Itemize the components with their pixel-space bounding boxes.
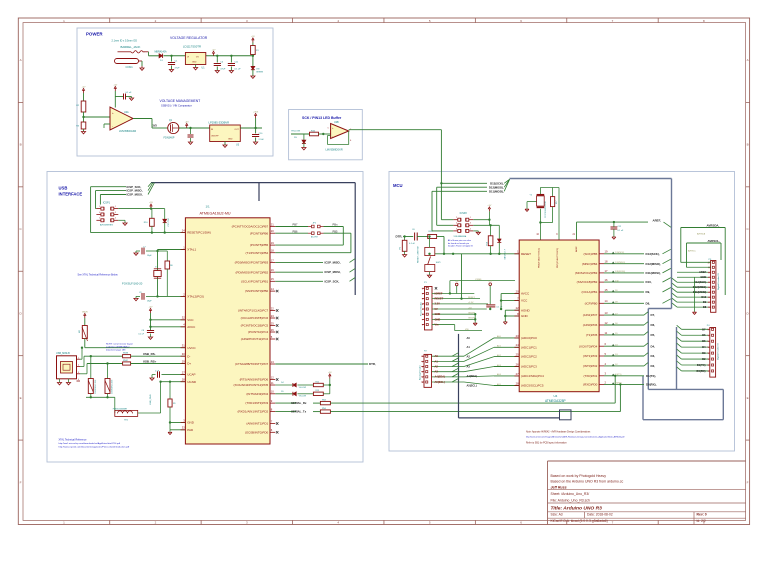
svg-text:A2: A2 bbox=[435, 364, 439, 368]
svg-text:E: E bbox=[747, 396, 749, 400]
svg-text:E: E bbox=[20, 396, 22, 400]
svg-text:1: 1 bbox=[709, 307, 710, 309]
svg-text:R18: R18 bbox=[487, 242, 489, 245]
svg-text:3: 3 bbox=[708, 359, 709, 361]
svg-text:ATMEGA328P: ATMEGA328P bbox=[545, 399, 566, 403]
svg-text:14: 14 bbox=[271, 287, 274, 291]
svg-text:(MOSI/OC2)PB3: (MOSI/OC2)PB3 bbox=[575, 271, 598, 275]
svg-text:UVCC: UVCC bbox=[187, 346, 196, 350]
svg-text:datasheet page 188: datasheet page 188 bbox=[106, 348, 126, 351]
svg-text:AVRSDA: AVRSDA bbox=[697, 233, 706, 236]
svg-text:+5V,: +5V, bbox=[468, 307, 472, 309]
svg-text:3.3V: 3.3V bbox=[435, 302, 441, 306]
svg-text:RESET_SWITCH: RESET_SWITCH bbox=[417, 245, 419, 263]
svg-text:1: 1 bbox=[78, 357, 79, 359]
svg-text:20: 20 bbox=[271, 229, 274, 233]
svg-text:19: 19 bbox=[605, 250, 608, 254]
svg-text:+5V: +5V bbox=[328, 372, 332, 374]
svg-text:http://ww1.microchip.com/downl: http://ww1.microchip.com/downloads/en/Ap… bbox=[59, 442, 121, 445]
svg-text:2: 2 bbox=[78, 365, 79, 367]
svg-text:(PCINT10)PC4: (PCINT10)PC4 bbox=[248, 330, 269, 334]
svg-text:2: 2 bbox=[708, 365, 709, 367]
svg-text:5: 5 bbox=[422, 309, 423, 311]
svg-text:D1(TX): D1(TX) bbox=[615, 374, 622, 376]
svg-text:D12(MISO),: D12(MISO), bbox=[646, 262, 662, 266]
svg-text:5: 5 bbox=[115, 218, 116, 220]
svg-text:D3,: D3, bbox=[651, 354, 656, 358]
svg-text:+5V: +5V bbox=[149, 307, 153, 309]
svg-text:31: 31 bbox=[182, 344, 185, 348]
svg-text:-: - bbox=[112, 124, 113, 128]
svg-text:YELLOW: YELLOW bbox=[299, 396, 307, 398]
svg-text:+5V: +5V bbox=[82, 87, 86, 89]
svg-text:D12(MISO): D12(MISO) bbox=[615, 262, 625, 264]
svg-text:PB7(XTAL2/TOSC2): PB7(XTAL2/TOSC2) bbox=[556, 248, 559, 268]
svg-text:5: 5 bbox=[709, 287, 710, 289]
svg-text:LP2985-33DBVR: LP2985-33DBVR bbox=[209, 120, 230, 124]
svg-text:A3: A3 bbox=[467, 364, 471, 368]
svg-text:(PCINT6)PB6: (PCINT6)PB6 bbox=[250, 231, 269, 235]
svg-text:R9: R9 bbox=[173, 403, 175, 405]
svg-text:D11(MOSI),: D11(MOSI), bbox=[646, 271, 661, 275]
svg-text:Size: A3: Size: A3 bbox=[551, 513, 563, 517]
svg-text:3: 3 bbox=[470, 223, 471, 225]
svg-text:be found on female pin: be found on female pin bbox=[448, 243, 470, 245]
svg-text:D2: D2 bbox=[702, 357, 706, 361]
svg-text:(INT4/ICP1/CLK0)PC7: (INT4/ICP1/CLK0)PC7 bbox=[238, 309, 269, 313]
svg-text:Vin: Vin bbox=[435, 322, 439, 326]
svg-text:http://ww1.atmel.com/images/At: http://ww1.atmel.com/images/Atmel-2521-A… bbox=[526, 436, 625, 439]
svg-text:(AIN2/PCINT11)PC2: (AIN2/PCINT11)PC2 bbox=[241, 337, 269, 341]
svg-text:PAD: PAD bbox=[187, 428, 194, 432]
svg-text:32: 32 bbox=[182, 316, 185, 320]
svg-text:7: 7 bbox=[422, 319, 423, 321]
svg-text:6: 6 bbox=[456, 228, 457, 230]
svg-text:D9: D9 bbox=[703, 300, 707, 304]
svg-text:A5(SCL): A5(SCL) bbox=[467, 383, 477, 387]
svg-text:XTAL Technical Reference: XTAL Technical Reference bbox=[59, 438, 88, 441]
svg-text:4: 4 bbox=[708, 353, 709, 355]
svg-text:AVRSCL,: AVRSCL, bbox=[708, 239, 721, 243]
svg-text:IOREF: IOREF bbox=[435, 291, 443, 295]
svg-text:(PD0/MISO/PCINT3)PB3: (PD0/MISO/PCINT3)PB3 bbox=[235, 261, 269, 265]
svg-text:(SCK)PB5: (SCK)PB5 bbox=[583, 252, 597, 256]
svg-text:VO: VO bbox=[196, 57, 199, 59]
svg-text:SSBV01 / VIN Comparator: SSBV01 / VIN Comparator bbox=[161, 103, 192, 107]
svg-text:13: 13 bbox=[605, 311, 608, 315]
svg-text:47uF: 47uF bbox=[175, 68, 181, 70]
svg-text:F: F bbox=[747, 480, 749, 484]
svg-text:D13(SCK): D13(SCK) bbox=[694, 280, 706, 284]
svg-text:8: 8 bbox=[422, 325, 423, 327]
svg-text:ICSP_MOSI,: ICSP_MOSI, bbox=[325, 270, 341, 274]
svg-text:(ICP)PB0: (ICP)PB0 bbox=[585, 301, 598, 305]
svg-text:SCK / PIN13 LED Buffer: SCK / PIN13 LED Buffer bbox=[302, 116, 342, 120]
svg-text:26: 26 bbox=[516, 362, 519, 366]
svg-text:headers Power & Digital IO: headers Power & Digital IO bbox=[448, 245, 473, 248]
svg-text:D4: D4 bbox=[281, 382, 283, 384]
svg-text:+5V: +5V bbox=[149, 202, 153, 204]
svg-text:GND: GND bbox=[228, 139, 233, 141]
svg-text:LMV358IDGKR: LMV358IDGKR bbox=[119, 130, 136, 133]
svg-text:(OC0B/INT0)PD0: (OC0B/INT0)PD0 bbox=[245, 430, 269, 434]
svg-text:D6: D6 bbox=[702, 333, 706, 337]
svg-text:PBn: PBn bbox=[333, 223, 338, 227]
svg-text:R17: R17 bbox=[556, 201, 558, 204]
svg-text:CSTCE16M0V53-R0: CSTCE16M0V53-R0 bbox=[545, 201, 547, 218]
svg-text:CG0603MLC-05E: CG0603MLC-05E bbox=[95, 379, 97, 394]
svg-text:+5V: +5V bbox=[212, 49, 216, 51]
svg-text:ICSP_MOSI,: ICSP_MOSI, bbox=[127, 193, 143, 197]
svg-text:1/1: 1/1 bbox=[206, 205, 211, 209]
svg-text:AVRSCL: AVRSCL bbox=[688, 250, 697, 253]
svg-text:D0(RX),: D0(RX), bbox=[646, 383, 657, 387]
svg-text:A1: A1 bbox=[467, 345, 471, 349]
svg-text:D3: D3 bbox=[702, 351, 706, 355]
svg-text:GREEN: GREEN bbox=[256, 72, 264, 74]
svg-text:SERIAL_Rx: SERIAL_Rx bbox=[291, 401, 307, 405]
svg-text:guidelines ATMEGA8U2: guidelines ATMEGA8U2 bbox=[106, 345, 130, 348]
svg-text:2: 2 bbox=[422, 293, 423, 295]
svg-text:XTAL1: XTAL1 bbox=[187, 248, 196, 252]
svg-text:AREF: AREF bbox=[699, 270, 707, 274]
svg-text:ICSP2: ICSP2 bbox=[460, 212, 468, 215]
svg-text:15: 15 bbox=[271, 277, 274, 281]
svg-text:DTR,: DTR, bbox=[396, 235, 403, 239]
svg-text:IOREF,: IOREF, bbox=[475, 279, 482, 281]
svg-text:26: 26 bbox=[271, 328, 274, 332]
svg-text:VBUS: VBUS bbox=[82, 312, 88, 314]
svg-text:Sheet: /Arduino_Uno_R3/: Sheet: /Arduino_Uno_R3/ bbox=[551, 492, 590, 496]
svg-text:25: 25 bbox=[516, 353, 519, 357]
svg-text:20: 20 bbox=[516, 290, 519, 294]
svg-text:15: 15 bbox=[605, 288, 608, 292]
svg-text:25: 25 bbox=[271, 321, 274, 325]
svg-text:F: F bbox=[20, 480, 22, 484]
svg-text:(TXD)PD1: (TXD)PD1 bbox=[583, 374, 597, 378]
svg-text:(PCINT7/OC0A/OC1C)PB7: (PCINT7/OC0A/OC1C)PB7 bbox=[232, 225, 269, 229]
svg-text:U4: U4 bbox=[554, 394, 558, 398]
svg-text:+: + bbox=[112, 111, 114, 115]
svg-text:ON: ON bbox=[256, 69, 260, 71]
svg-text:14: 14 bbox=[605, 299, 608, 303]
svg-text:ICSP_SCK,: ICSP_SCK, bbox=[325, 279, 340, 283]
svg-text:A: A bbox=[20, 58, 22, 62]
svg-text:7: 7 bbox=[709, 277, 710, 279]
svg-text:3: 3 bbox=[422, 299, 423, 301]
svg-text:D5,: D5, bbox=[651, 333, 656, 337]
svg-text:8: 8 bbox=[708, 329, 709, 331]
svg-text:(ADC4/SDA)PC4: (ADC4/SDA)PC4 bbox=[521, 374, 544, 378]
svg-text:3: 3 bbox=[709, 297, 710, 299]
svg-text:D11(MOSI): D11(MOSI) bbox=[615, 271, 625, 273]
svg-text:28: 28 bbox=[182, 378, 185, 382]
svg-text:D1(TX),: D1(TX), bbox=[646, 374, 656, 378]
svg-text:4: 4 bbox=[422, 372, 423, 374]
svg-text:17: 17 bbox=[605, 269, 608, 273]
svg-text:(SS/PCINT0)PB0: (SS/PCINT0)PB0 bbox=[245, 289, 269, 293]
svg-text:16: 16 bbox=[271, 268, 274, 272]
svg-text:D0(RX): D0(RX) bbox=[697, 369, 706, 373]
svg-text:1: 1 bbox=[115, 206, 116, 208]
svg-text:ON/OFF: ON/OFF bbox=[211, 136, 219, 138]
svg-text:2: 2 bbox=[709, 302, 710, 304]
svg-text:6: 6 bbox=[422, 314, 423, 316]
svg-text:(RTS/AIN5/INT6)PD6: (RTS/AIN5/INT6)PD6 bbox=[240, 378, 269, 382]
svg-text:LD1117S50TR: LD1117S50TR bbox=[183, 45, 201, 49]
svg-text:22: 22 bbox=[516, 306, 519, 310]
svg-text:R13: R13 bbox=[316, 390, 319, 392]
svg-text:Jeff Russ: Jeff Russ bbox=[551, 485, 567, 489]
svg-text:(AIN0)PD6: (AIN0)PD6 bbox=[583, 323, 598, 327]
svg-text:CG0603MLC-05E: CG0603MLC-05E bbox=[112, 379, 114, 394]
svg-text:(TXD1/INT3)PD3: (TXD1/INT3)PD3 bbox=[245, 401, 268, 405]
svg-text:D6,: D6, bbox=[651, 323, 656, 327]
svg-text:0.1 uF: 0.1 uF bbox=[618, 230, 624, 232]
svg-text:DTR,: DTR, bbox=[369, 362, 376, 366]
svg-text:USB_RS-: USB_RS- bbox=[143, 352, 156, 356]
svg-text:4: 4 bbox=[78, 379, 79, 381]
svg-text:2.1mm ID x 5.5mm OD: 2.1mm ID x 5.5mm OD bbox=[112, 40, 138, 43]
svg-text:Based on work by Photogold Hea: Based on work by Photogold Heavy bbox=[551, 474, 607, 478]
svg-text:UGND: UGND bbox=[187, 380, 197, 384]
svg-text:(ADC3)PC3: (ADC3)PC3 bbox=[521, 365, 537, 369]
svg-text:AS_PBT: AS_PBT bbox=[311, 236, 319, 239]
svg-text:1: 1 bbox=[470, 217, 471, 219]
svg-text:RN4: RN4 bbox=[322, 400, 326, 402]
svg-text:0.1 uF: 0.1 uF bbox=[138, 334, 144, 336]
svg-text:12: 12 bbox=[271, 375, 274, 379]
svg-text:File: Arduino_Uno_R3.sch: File: Arduino_Uno_R3.sch bbox=[551, 498, 591, 502]
svg-text:5V: 5V bbox=[435, 307, 438, 311]
svg-text:http://www.crystek.com/documen: http://www.crystek.com/documents/appnote… bbox=[59, 445, 130, 448]
svg-text:D7: D7 bbox=[702, 327, 706, 331]
svg-text:All of these pins can also: All of these pins can also bbox=[448, 239, 472, 242]
svg-text:VOLTAGE MANAGEMENT: VOLTAGE MANAGEMENT bbox=[160, 99, 201, 103]
svg-text:3: 3 bbox=[115, 212, 116, 214]
svg-text:D5: D5 bbox=[281, 391, 283, 393]
svg-text:22: 22 bbox=[271, 306, 274, 310]
svg-text:(PCINT9/OC1B)PC5: (PCINT9/OC1B)PC5 bbox=[241, 324, 269, 328]
svg-text:D1(TX): D1(TX) bbox=[697, 363, 706, 367]
svg-text:2: 2 bbox=[456, 217, 457, 219]
svg-text:(RXD)PD0: (RXD)PD0 bbox=[583, 383, 597, 387]
svg-text:AGND: AGND bbox=[521, 308, 531, 312]
svg-text:D4: D4 bbox=[702, 345, 706, 349]
svg-text:PGB1010603MR: PGB1010603MR bbox=[113, 408, 128, 410]
svg-text:LTST-C191: LTST-C191 bbox=[168, 218, 170, 227]
svg-text:FDN340P: FDN340P bbox=[164, 136, 175, 139]
svg-text:4: 4 bbox=[709, 292, 710, 294]
svg-text:MCU: MCU bbox=[393, 183, 403, 188]
svg-text:(OC1A/PCINT8)PC6: (OC1A/PCINT8)PC6 bbox=[241, 316, 269, 320]
svg-text:Digital Header IO: Digital Header IO bbox=[717, 343, 720, 360]
svg-text:RESET: RESET bbox=[435, 297, 444, 301]
svg-text:SW1: SW1 bbox=[436, 262, 442, 264]
svg-text:4: 4 bbox=[456, 223, 457, 225]
svg-text:29: 29 bbox=[182, 359, 185, 363]
svg-text:18pF: 18pF bbox=[147, 301, 152, 303]
svg-text:UCAP: UCAP bbox=[187, 373, 195, 377]
svg-text:8: 8 bbox=[709, 272, 710, 274]
svg-text:D8,: D8, bbox=[646, 301, 651, 305]
svg-text:USB: USB bbox=[59, 186, 68, 191]
svg-text:2: 2 bbox=[422, 361, 423, 363]
svg-text:D8: D8 bbox=[703, 305, 707, 309]
svg-text:0.1 uF: 0.1 uF bbox=[126, 92, 133, 94]
svg-text:5: 5 bbox=[470, 228, 471, 230]
svg-text:D7,: D7, bbox=[651, 313, 656, 317]
svg-text:RN4: RN4 bbox=[322, 408, 326, 410]
svg-text:D-: D- bbox=[187, 354, 190, 358]
svg-text:+3.3V,: +3.3V, bbox=[468, 302, 474, 304]
svg-text:AREF: AREF bbox=[575, 246, 578, 252]
svg-text:7: 7 bbox=[708, 335, 709, 337]
svg-text:R12: R12 bbox=[316, 381, 319, 383]
svg-text:19: 19 bbox=[271, 241, 274, 245]
svg-text:LMV358IDGKR: LMV358IDGKR bbox=[326, 149, 343, 152]
svg-text:U2B: U2B bbox=[334, 121, 339, 124]
svg-text:BARREL_JACK: BARREL_JACK bbox=[121, 45, 141, 49]
svg-text:0.1 uF: 0.1 uF bbox=[497, 307, 503, 309]
svg-text:See XTAL Technical Reference B: See XTAL Technical Reference Below bbox=[78, 273, 118, 276]
svg-text:(XCK/T0)PD4: (XCK/T0)PD4 bbox=[579, 344, 598, 348]
svg-text:AVRSDA,: AVRSDA, bbox=[707, 224, 720, 228]
svg-text:(ADC1)PC1: (ADC1)PC1 bbox=[521, 345, 537, 349]
svg-text:D+: D+ bbox=[187, 362, 191, 366]
svg-text:AREF,: AREF, bbox=[653, 219, 662, 223]
svg-text:RN3C: RN3C bbox=[123, 360, 129, 362]
svg-text:(INT0)PD2: (INT0)PD2 bbox=[583, 364, 598, 368]
svg-text:OUT: OUT bbox=[234, 129, 239, 131]
svg-text:Id: 2/2: Id: 2/2 bbox=[697, 519, 706, 523]
svg-text:NOTE: serial resistor layout: NOTE: serial resistor layout bbox=[106, 343, 133, 346]
svg-text:23: 23 bbox=[516, 334, 519, 338]
svg-text:(PDI/MOSI/PCINT2)PB2: (PDI/MOSI/PCINT2)PB2 bbox=[236, 270, 269, 274]
svg-text:3: 3 bbox=[78, 372, 79, 374]
svg-text:+5V: +5V bbox=[113, 85, 117, 87]
svg-text:23: 23 bbox=[271, 314, 274, 318]
svg-text:2: 2 bbox=[99, 206, 100, 208]
svg-text:18: 18 bbox=[605, 260, 608, 264]
svg-text:D9,: D9, bbox=[646, 290, 651, 294]
svg-text:13: 13 bbox=[271, 360, 274, 364]
svg-text:MBRA140A: MBRA140A bbox=[155, 50, 167, 53]
svg-text:(ADC5/SCL)PC5: (ADC5/SCL)PC5 bbox=[521, 384, 544, 388]
svg-text:AVCC: AVCC bbox=[521, 292, 530, 296]
svg-text:27: 27 bbox=[516, 372, 519, 376]
svg-text:(SCLK/PCINT1)PB1: (SCLK/PCINT1)PB1 bbox=[241, 279, 268, 283]
svg-text:+5V: +5V bbox=[251, 36, 255, 38]
svg-text:X3S-MBBGMA: X3S-MBBGMA bbox=[454, 235, 467, 238]
svg-text:D2,: D2, bbox=[651, 364, 656, 368]
svg-text:USB_RS+: USB_RS+ bbox=[143, 359, 157, 363]
svg-text:16: 16 bbox=[605, 278, 608, 282]
svg-text:A4(SDA): A4(SDA) bbox=[467, 374, 478, 378]
svg-text:ICSP_MISO,: ICSP_MISO, bbox=[325, 260, 341, 264]
svg-text:(XCK/AIN4/PCINT12)PD5: (XCK/AIN4/PCINT12)PD5 bbox=[234, 383, 269, 387]
svg-text:GND: GND bbox=[192, 62, 197, 64]
svg-text:(AIN0/INT1)PD1: (AIN0/INT1)PD1 bbox=[246, 422, 268, 426]
svg-text:R5: R5 bbox=[400, 247, 402, 249]
svg-text:11: 11 bbox=[271, 381, 274, 385]
svg-text:5: 5 bbox=[422, 377, 423, 379]
svg-text:FOXSLF/160-20: FOXSLF/160-20 bbox=[122, 281, 143, 285]
svg-text:6: 6 bbox=[99, 218, 100, 220]
svg-text:YELLOW: YELLOW bbox=[299, 387, 307, 389]
svg-text:USB_MINI-B: USB_MINI-B bbox=[56, 352, 70, 355]
svg-text:28: 28 bbox=[516, 381, 519, 385]
svg-text:D4,: D4, bbox=[651, 344, 656, 348]
svg-text:6: 6 bbox=[708, 341, 709, 343]
svg-text:CON1: CON1 bbox=[126, 65, 134, 69]
svg-text:INTERFACE: INTERFACE bbox=[59, 191, 83, 196]
svg-text:AVR-MSERIES: AVR-MSERIES bbox=[100, 224, 114, 227]
svg-text:D0(RX): D0(RX) bbox=[615, 383, 622, 385]
svg-text:D5: D5 bbox=[702, 339, 706, 343]
svg-text:1: 1 bbox=[422, 356, 423, 358]
svg-text:(INT1)PD3: (INT1)PD3 bbox=[583, 354, 598, 358]
svg-text:21: 21 bbox=[271, 222, 274, 226]
svg-text:Rev: 0: Rev: 0 bbox=[697, 513, 707, 517]
svg-text:D11(MOSI),: D11(MOSI), bbox=[489, 189, 504, 193]
svg-text:XTAL2(PC0): XTAL2(PC0) bbox=[187, 295, 204, 299]
svg-text:30: 30 bbox=[182, 352, 185, 356]
svg-text:B: B bbox=[747, 143, 749, 147]
svg-text:+5V: +5V bbox=[487, 205, 491, 207]
svg-text:-: - bbox=[332, 134, 333, 138]
svg-text:2.2uF: 2.2uF bbox=[259, 139, 265, 141]
svg-text:0.1 uF: 0.1 uF bbox=[409, 243, 416, 245]
svg-text:Digital Header IO: Digital Header IO bbox=[717, 273, 720, 290]
svg-text:YELLOW: YELLOW bbox=[291, 131, 301, 133]
svg-text:5: 5 bbox=[708, 347, 709, 349]
svg-text:D10: D10 bbox=[701, 295, 706, 299]
svg-text:VCC: VCC bbox=[521, 299, 528, 303]
svg-text:(MISO)PB4: (MISO)PB4 bbox=[582, 262, 598, 266]
svg-text:+3V3: +3V3 bbox=[253, 112, 259, 114]
svg-text:AVCC: AVCC bbox=[187, 325, 196, 329]
svg-text:RESET(PC1/DW): RESET(PC1/DW) bbox=[187, 231, 211, 235]
svg-text:Note: Appnote AVR042 - AVR Har: Note: Appnote AVR042 - AVR Hardware Desi… bbox=[526, 430, 591, 433]
svg-text:3: 3 bbox=[422, 367, 423, 369]
svg-text:A2: A2 bbox=[467, 355, 471, 359]
svg-text:A1: A1 bbox=[435, 359, 439, 363]
svg-text:12: 12 bbox=[605, 321, 608, 325]
svg-text:Title: Arduino UNO R3: Title: Arduino UNO R3 bbox=[551, 505, 603, 511]
svg-text:GND: GND bbox=[187, 421, 195, 425]
svg-text:B: B bbox=[20, 143, 22, 147]
svg-text:GND: GND bbox=[435, 312, 441, 316]
svg-text:GND: GND bbox=[521, 314, 529, 318]
svg-text:18pF: 18pF bbox=[147, 255, 152, 257]
svg-text:24: 24 bbox=[516, 343, 519, 347]
svg-text:A0: A0 bbox=[467, 336, 471, 340]
svg-text:6: 6 bbox=[422, 382, 423, 384]
svg-text:GND: GND bbox=[435, 317, 441, 321]
svg-text:17: 17 bbox=[271, 258, 274, 262]
svg-text:D13(SCK): D13(SCK) bbox=[615, 252, 624, 254]
svg-text:A5(SCL): A5(SCL) bbox=[435, 380, 445, 384]
svg-text:RESET,: RESET, bbox=[468, 297, 475, 299]
svg-text:(T1/PCINT4)PB4: (T1/PCINT4)PB4 bbox=[246, 251, 269, 255]
svg-text:KiCad E.D.A. kicad (5.0.0-3-g: KiCad E.D.A. kicad (5.0.0-3-g5a6ada6) bbox=[551, 519, 608, 523]
svg-text:VIN,: VIN, bbox=[465, 329, 469, 331]
svg-text:47uF: 47uF bbox=[220, 69, 226, 71]
svg-text:4: 4 bbox=[99, 212, 100, 214]
svg-text:ICSP1: ICSP1 bbox=[103, 201, 111, 204]
svg-text:(AIN1)PD7: (AIN1)PD7 bbox=[583, 313, 598, 317]
